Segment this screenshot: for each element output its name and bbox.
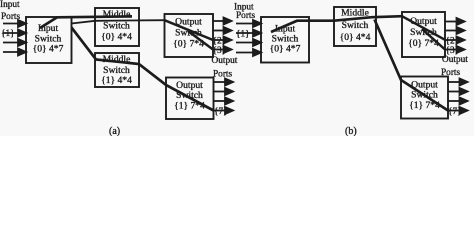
svg-text:(b): (b) (345, 126, 357, 136)
middle switch 0 text (b) (340, 7, 371, 43)
svg-text:{7}: {7} (214, 107, 228, 117)
svg-text:Switch: Switch (411, 89, 438, 100)
output port arrows output1 (a) (214, 79, 234, 115)
svg-text:{3}: {3} (213, 46, 227, 56)
svg-text:Middle: Middle (341, 7, 369, 18)
svg-text:Output: Output (410, 16, 437, 27)
svg-text:{1}: {1} (1, 29, 15, 39)
wire: bold route input->middle1->output1 port 7 (a) (72, 28, 214, 111)
output port arrows output1 (b) (448, 79, 468, 115)
svg-text:{3}: {3} (446, 46, 460, 56)
middle switch 0 box (b) (334, 7, 376, 46)
input switch box (b) (261, 17, 309, 63)
output port arrows output0 (b) (445, 18, 465, 53)
svg-text:{0} 4*4: {0} 4*4 (101, 32, 132, 43)
wire: route inside output0 to port 2 (a) (165, 20, 214, 40)
svg-text:Switch: Switch (342, 20, 369, 31)
svg-text:Output: Output (175, 17, 202, 28)
svg-text:{1} 4*4: {1} 4*4 (101, 75, 132, 86)
wire: bold route input->middle0 (a) (40, 16, 132, 28)
output switch 1 box (a) (166, 78, 214, 120)
svg-text:{0} 7*4: {0} 7*4 (173, 38, 204, 49)
middle switch 0 box (a) (95, 8, 139, 46)
svg-text:(a): (a) (109, 126, 120, 136)
middle switch 1 box (a) (95, 53, 139, 87)
output switch 0 box (b) (402, 12, 445, 57)
wire: bold route input->middle0->output0 (b) (271, 16, 402, 32)
svg-text:Switch: Switch (175, 27, 202, 38)
svg-text:{7}: {7} (448, 107, 462, 117)
wire: route inside output0 to port 2 (b) (402, 16, 445, 40)
output switch 0 text (b) (408, 16, 439, 49)
wire: link input->middle0->output0 (a) (72, 20, 165, 23)
svg-text:{0} 4*7: {0} 4*7 (33, 44, 64, 55)
output switch 0 text (a) (173, 17, 204, 50)
svg-text:{0} 4*4: {0} 4*4 (340, 32, 371, 43)
label Output Ports (a) (212, 56, 238, 80)
output switch 0 box (a) (165, 14, 214, 57)
svg-text:{2}: {2} (446, 37, 460, 47)
svg-text:Output: Output (442, 55, 468, 65)
svg-text:Input: Input (0, 0, 20, 10)
output switch 1 text (a) (174, 80, 205, 111)
wire: bold route middle0->output1 port 7 (b) (375, 20, 449, 111)
input switch text (b) (270, 23, 301, 54)
label Input Ports (a) (0, 0, 20, 22)
svg-text:Ports: Ports (1, 12, 20, 22)
label Output Ports (b) (441, 55, 468, 78)
svg-text:Ports: Ports (213, 69, 232, 79)
svg-text:Middle: Middle (103, 9, 131, 20)
wire: route branch inside output0 to port 3 (b) (422, 29, 445, 50)
middle switch 1 text (a) (101, 54, 132, 86)
svg-text:{1} 7*4: {1} 7*4 (409, 100, 440, 111)
svg-text:Switch: Switch (410, 27, 437, 38)
input switch text (a) (33, 23, 64, 55)
svg-text:Ports: Ports (236, 11, 255, 21)
svg-text:{1} 7*4: {1} 7*4 (174, 100, 205, 111)
label Input Ports (b) (234, 2, 255, 21)
output switch 1 text (b) (409, 80, 440, 111)
middle switch 0 text (a) (101, 9, 132, 43)
input port arrows (a) (3, 20, 26, 56)
svg-text:Switch: Switch (103, 20, 130, 31)
output switch 1 box (b) (401, 77, 448, 119)
wire: route branch inside output0 to port 3 (a) (188, 31, 213, 50)
output port arrows output0 (a) (213, 18, 232, 54)
svg-text:{1}: {1} (236, 30, 250, 40)
svg-text:{2}: {2} (213, 37, 227, 47)
svg-text:Ports: Ports (441, 68, 460, 78)
input switch box (a) (26, 17, 72, 63)
svg-text:Middle: Middle (103, 54, 131, 65)
input port arrows (b) (236, 20, 261, 56)
svg-text:{0} 7*4: {0} 7*4 (408, 38, 439, 49)
svg-text:Output: Output (212, 56, 238, 66)
svg-text:{0} 4*7: {0} 4*7 (270, 43, 301, 54)
